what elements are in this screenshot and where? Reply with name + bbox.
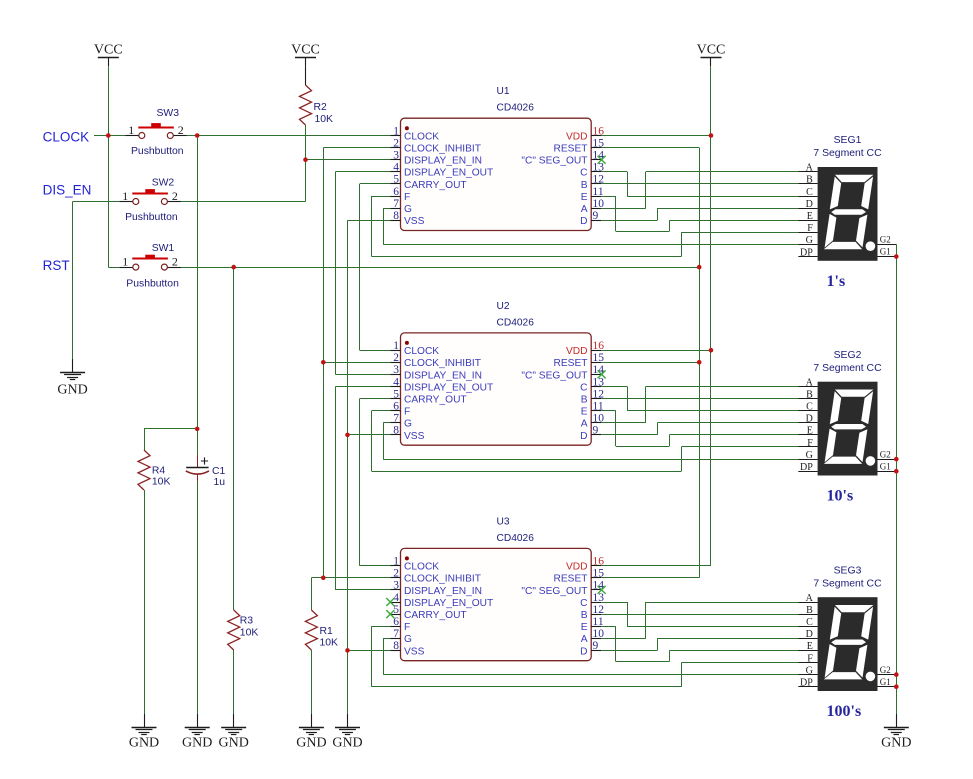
svg-text:VDD: VDD	[566, 562, 588, 573]
svg-text:G2: G2	[880, 449, 891, 459]
resistor R3	[228, 610, 240, 650]
wire U2 pin10 A	[601, 422, 646, 424]
svg-text:SEG2: SEG2	[834, 350, 862, 361]
ground GND under R3	[233, 714, 235, 727]
wire U3 pin10 A	[601, 638, 646, 640]
svg-text:1: 1	[393, 340, 399, 352]
svg-text:F: F	[807, 653, 813, 664]
wire U2 pin7 G left	[383, 422, 390, 424]
svg-text:C: C	[580, 382, 587, 393]
svg-text:11: 11	[593, 616, 604, 628]
wire F to SEG3 F	[681, 662, 798, 664]
wire C row to SEG2 C	[627, 410, 798, 412]
wire RST corner to SW1 pin1	[108, 267, 119, 269]
svg-text:F: F	[404, 622, 410, 633]
svg-text:D: D	[580, 646, 587, 657]
svg-text:RESET: RESET	[554, 574, 588, 585]
svg-text:DISPLAY_EN_IN: DISPLAY_EN_IN	[404, 370, 482, 381]
wire U1 G down	[383, 208, 385, 244]
svg-text:D: D	[806, 414, 813, 425]
wire D row to SEG3 D	[657, 638, 798, 640]
wire DIS_EN down to GND	[72, 202, 74, 360]
svg-text:B: B	[806, 175, 813, 186]
wire U3 pin12 B straight to SEG3 B	[601, 614, 798, 616]
svg-text:CD4026: CD4026	[497, 317, 535, 328]
wire G to SEG1 G	[383, 244, 798, 246]
pushbutton SW2	[119, 201, 133, 203]
wire CLOCK_INHIBIT to U2 pin2	[323, 362, 390, 364]
svg-text:VSS: VSS	[404, 646, 425, 657]
svg-text:C: C	[806, 617, 813, 628]
wire U3 F along DP row	[372, 686, 682, 688]
svg-text:10: 10	[593, 628, 605, 640]
ground GND under R4	[144, 714, 146, 727]
wire VSS to U1 pin8	[348, 220, 391, 222]
svg-text:"C" SEG_OUT: "C" SEG_OUT	[521, 586, 587, 597]
svg-text:VCC: VCC	[94, 43, 123, 58]
wire U3 pin1 stub run	[360, 565, 391, 567]
svg-text:DISPLAY_EN_OUT: DISPLAY_EN_OUT	[404, 382, 493, 393]
wire D row to SEG2 D	[657, 422, 798, 424]
wire E up	[669, 650, 671, 661]
svg-text:F: F	[807, 223, 813, 234]
svg-text:G: G	[404, 634, 412, 645]
svg-text:Pushbutton: Pushbutton	[126, 278, 179, 289]
svg-text:G: G	[806, 235, 813, 246]
svg-text:SW1: SW1	[152, 243, 175, 254]
svg-text:9: 9	[593, 640, 599, 652]
svg-text:E: E	[807, 426, 813, 437]
svg-text:12: 12	[593, 388, 605, 400]
wire R1 bottom to GND	[311, 650, 313, 714]
wire A up	[645, 387, 647, 423]
wire E row to SEG2 E	[669, 434, 798, 436]
wire E down	[615, 626, 617, 661]
junction VSS U3	[345, 648, 350, 653]
svg-text:A: A	[581, 419, 588, 430]
svg-text:C1: C1	[212, 466, 226, 477]
wire SW2 pin2 to R2 bottom	[181, 201, 306, 203]
junction SEG2 G2	[894, 457, 899, 462]
junction VDD U1	[709, 133, 714, 138]
wire CLOCK net down to C1/R4 junction	[197, 136, 199, 429]
svg-text:U1: U1	[497, 86, 510, 97]
svg-text:1: 1	[128, 123, 134, 137]
svg-text:9: 9	[593, 210, 599, 222]
svg-text:"C" SEG_OUT: "C" SEG_OUT	[521, 370, 587, 381]
wire U3 pin7 G left	[383, 638, 390, 640]
svg-text:CARRY_OUT: CARRY_OUT	[404, 610, 467, 621]
ground GND left (DIS_EN)	[72, 359, 74, 372]
svg-text:A: A	[806, 593, 814, 604]
wire U2 F down	[371, 411, 373, 472]
svg-text:G1: G1	[880, 247, 891, 257]
wire U3 F up to F row	[681, 663, 683, 687]
ground GND right under displays	[896, 714, 898, 727]
svg-text:12: 12	[593, 174, 605, 186]
svg-text:C: C	[580, 168, 587, 179]
junction R2/DISPLAY_EN_IN	[303, 157, 308, 162]
svg-text:B: B	[806, 389, 813, 400]
junction SEG2 G1	[894, 469, 899, 474]
svg-text:RST: RST	[43, 258, 70, 273]
svg-text:E: E	[807, 211, 813, 222]
no-connect X U1 pin14	[598, 156, 606, 164]
svg-text:10K: 10K	[152, 476, 171, 487]
svg-text:RESET: RESET	[554, 358, 588, 369]
wire U1 pin6 F left	[372, 196, 391, 198]
svg-text:7: 7	[393, 628, 399, 640]
wire U1 pin7 G left	[383, 208, 390, 210]
wire DIS_EN label to SW2 pin1	[73, 201, 120, 203]
svg-text:A: A	[806, 377, 814, 388]
svg-text:1: 1	[122, 255, 128, 269]
wire U3 F down	[371, 626, 373, 687]
wire D up	[657, 208, 659, 220]
wire R1 upper lead	[311, 578, 313, 610]
junction R3 top	[231, 265, 236, 270]
svg-text:D: D	[580, 431, 587, 442]
svg-text:1's: 1's	[827, 273, 846, 290]
wire E detour	[616, 446, 670, 448]
svg-text:3: 3	[393, 150, 399, 162]
wire A up	[645, 172, 647, 208]
junction RESET U2	[697, 360, 702, 365]
svg-text:DISPLAY_EN_IN: DISPLAY_EN_IN	[404, 156, 482, 167]
wire E down	[615, 411, 617, 446]
wire U2 pin11 E	[601, 410, 616, 412]
wire U1 pin12 B straight to SEG1 B	[601, 183, 798, 185]
svg-text:16: 16	[593, 340, 605, 352]
svg-text:DIS_EN: DIS_EN	[43, 182, 92, 197]
wire D row to SEG1 D	[657, 208, 798, 210]
svg-text:3: 3	[393, 580, 399, 592]
svg-text:G1: G1	[880, 461, 891, 471]
svg-text:SW3: SW3	[157, 108, 180, 119]
wire U2 pin4 stub run	[335, 386, 390, 388]
svg-text:CLOCK_INHIBIT: CLOCK_INHIBIT	[404, 358, 481, 369]
junction VDD U2	[709, 348, 714, 353]
svg-text:A: A	[581, 634, 588, 645]
junction C1 top	[195, 427, 200, 432]
svg-text:DP: DP	[800, 247, 813, 258]
svg-text:Pushbutton: Pushbutton	[125, 212, 178, 223]
wire R4 bottom to GND	[144, 490, 146, 714]
svg-text:CLOCK: CLOCK	[43, 129, 90, 144]
svg-text:F: F	[807, 438, 813, 449]
resistor R1	[305, 610, 317, 650]
bus display G1/G2 common x=896	[896, 244, 898, 714]
no-connect X U3 pin5	[386, 610, 394, 618]
svg-text:GND: GND	[332, 736, 362, 751]
svg-text:SW2: SW2	[152, 178, 175, 189]
svg-text:10: 10	[593, 198, 605, 210]
no-connect X U3 pin4	[386, 598, 394, 606]
wire U1 CARRY_OUT to U2 CLOCK	[359, 184, 361, 350]
svg-text:2: 2	[178, 123, 184, 137]
IC U3 CD4026	[401, 548, 592, 660]
svg-text:G: G	[806, 665, 813, 676]
svg-text:D: D	[580, 216, 587, 227]
wire A row to SEG3 A	[646, 602, 799, 604]
wire A row to SEG2 A	[646, 386, 799, 388]
svg-text:6: 6	[393, 401, 399, 413]
svg-text:CARRY_OUT: CARRY_OUT	[404, 180, 467, 191]
svg-text:7 Segment CC: 7 Segment CC	[813, 578, 882, 589]
svg-text:VSS: VSS	[404, 216, 425, 227]
wire U2 DISPLAY_EN_OUT to U3 DISPLAY_EN_IN	[335, 387, 337, 590]
svg-text:F: F	[404, 407, 410, 418]
wire VSS to U3 pin8	[348, 650, 391, 652]
IC U1 CD4026	[401, 118, 592, 230]
svg-text:SEG1: SEG1	[834, 135, 862, 146]
wire U1 pin11 E	[601, 196, 616, 198]
svg-text:8: 8	[393, 210, 399, 222]
svg-text:7 Segment CC: 7 Segment CC	[813, 148, 882, 159]
svg-text:7: 7	[393, 198, 399, 210]
ground GND under C1	[197, 714, 199, 727]
svg-text:VCC: VCC	[291, 43, 320, 58]
svg-text:10: 10	[593, 413, 605, 425]
svg-text:10K: 10K	[240, 628, 259, 639]
wire R3 bottom to GND	[233, 650, 235, 714]
junction CLOCK/VCC	[106, 133, 111, 138]
wire U3 pin15 RESET	[601, 577, 699, 579]
svg-text:D: D	[806, 199, 813, 210]
svg-text:4: 4	[393, 376, 399, 388]
bus VDD vertical x=711	[710, 66, 712, 566]
wire R2 junction to U1 pin3 DISPLAY_EN_IN	[306, 159, 391, 161]
svg-text:C: C	[806, 402, 813, 413]
svg-text:1: 1	[122, 189, 128, 203]
wire R4 upper lead	[144, 429, 146, 450]
svg-text:15: 15	[593, 352, 605, 364]
7-segment display SEG1	[818, 167, 878, 261]
svg-text:1: 1	[393, 556, 399, 568]
bus RESET vertical x=699	[699, 148, 701, 578]
svg-text:15: 15	[593, 137, 605, 149]
wire U2 F up to F row	[681, 447, 683, 471]
svg-text:DP: DP	[800, 462, 813, 473]
wire U1 pin5 stub run	[360, 183, 391, 185]
svg-text:G: G	[404, 204, 412, 215]
svg-text:B: B	[581, 610, 588, 621]
wire R2 lower lead	[305, 125, 307, 160]
svg-text:1u: 1u	[214, 477, 226, 488]
wire U1 pin10 A	[601, 208, 646, 210]
svg-text:U3: U3	[497, 516, 510, 527]
wire SW3 pin2 to U1 CLOCK pin1	[187, 135, 391, 137]
bus CLOCK_INHIBIT vertical x=323	[323, 148, 325, 578]
7-segment display SEG3	[818, 597, 878, 691]
svg-text:CLOCK_INHIBIT: CLOCK_INHIBIT	[404, 144, 481, 155]
svg-text:7: 7	[393, 413, 399, 425]
wire pin13 down to C row	[627, 387, 629, 411]
wire U2 pin12 B straight to SEG2 B	[601, 398, 798, 400]
svg-text:11: 11	[593, 186, 604, 198]
pushbutton SW1	[119, 267, 133, 269]
wire VCC1 down to CLOCK row	[108, 66, 110, 135]
svg-text:6: 6	[393, 186, 399, 198]
svg-text:G2: G2	[880, 235, 891, 245]
svg-text:DP: DP	[800, 678, 813, 689]
wire U2 pin1 stub run	[360, 350, 391, 352]
wire U1 pin9 D	[601, 220, 657, 222]
wire U3 pin13	[601, 602, 627, 604]
IC U2 CD4026	[401, 333, 592, 445]
svg-text:E: E	[807, 641, 813, 652]
svg-text:4: 4	[393, 592, 399, 604]
wire SW1 pin2 to RESET bus	[181, 267, 699, 269]
svg-text:CD4026: CD4026	[497, 533, 535, 544]
wire U2 pin15 RESET	[601, 362, 699, 364]
svg-text:DISPLAY_EN_OUT: DISPLAY_EN_OUT	[404, 598, 493, 609]
wire A up	[645, 602, 647, 638]
wire E detour	[616, 231, 670, 233]
wire R4 top to C1 top junction	[144, 428, 197, 430]
svg-text:B: B	[581, 395, 588, 406]
svg-text:DISPLAY_EN_OUT: DISPLAY_EN_OUT	[404, 168, 493, 179]
svg-text:5: 5	[393, 174, 399, 186]
svg-text:15: 15	[593, 568, 605, 580]
svg-text:SEG3: SEG3	[834, 565, 862, 576]
wire U2 CARRY_OUT to U3 CLOCK	[359, 399, 361, 566]
junction RST/RESET bus	[697, 265, 702, 270]
svg-text:B: B	[581, 180, 588, 191]
svg-text:CLOCK: CLOCK	[404, 131, 439, 142]
svg-text:2: 2	[393, 137, 399, 149]
wire U2 pin6 F left	[372, 410, 391, 412]
svg-text:C: C	[580, 598, 587, 609]
wire U3 pin9 D	[601, 650, 657, 652]
svg-text:E: E	[581, 192, 588, 203]
wire E up	[669, 435, 671, 446]
svg-text:2: 2	[393, 352, 399, 364]
wire G to SEG2 G	[383, 459, 798, 461]
wire F to SEG1 F	[681, 232, 798, 234]
wire C row to SEG1 C	[627, 196, 798, 198]
wire U2 pin13	[601, 386, 627, 388]
svg-text:CLOCK: CLOCK	[404, 562, 439, 573]
wire G to SEG3 G	[383, 674, 798, 676]
svg-text:"C" SEG_OUT: "C" SEG_OUT	[521, 156, 587, 167]
wire CLOCK_INHIBIT to U1 pin2	[323, 147, 390, 149]
svg-text:RESET: RESET	[554, 144, 588, 155]
junction CLOCK_INHIBIT U3/R1	[321, 576, 326, 581]
pushbutton SW3	[125, 135, 139, 137]
svg-text:2: 2	[393, 568, 399, 580]
wire U2 pin16 VDD	[601, 350, 711, 352]
wire U3 pin16 VDD	[601, 565, 711, 567]
svg-text:10K: 10K	[315, 114, 334, 125]
svg-text:100's: 100's	[827, 703, 862, 720]
svg-text:16: 16	[593, 125, 605, 137]
wire E down	[615, 196, 617, 231]
wire U3 G down	[383, 638, 385, 674]
svg-text:GND: GND	[296, 736, 326, 751]
wire R2 bottom vertical	[305, 160, 307, 202]
svg-text:G1: G1	[880, 677, 891, 687]
wire VCC2 to R2 top	[305, 66, 307, 85]
svg-text:VDD: VDD	[566, 346, 588, 357]
wire CLOCK label to SW3 pin1	[94, 135, 125, 137]
svg-text:4: 4	[393, 162, 399, 174]
wire U1 pin15 RESET	[601, 147, 699, 149]
wire U1 pin13	[601, 171, 627, 173]
ground GND under R1	[311, 714, 313, 727]
junction VSS U2	[345, 433, 350, 438]
wire U1 F down	[371, 196, 373, 257]
svg-text:VSS: VSS	[404, 431, 425, 442]
wire U3 pin3 stub run	[335, 589, 390, 591]
svg-text:VCC: VCC	[697, 43, 726, 58]
svg-text:CLOCK_INHIBIT: CLOCK_INHIBIT	[404, 574, 481, 585]
wire E up	[669, 220, 671, 231]
wire F to SEG2 F	[681, 446, 798, 448]
wire U2 pin9 D	[601, 434, 657, 436]
wire U1 DISPLAY_EN_OUT to U2 DISPLAY_EN_IN	[335, 172, 337, 375]
svg-text:7 Segment CC: 7 Segment CC	[813, 363, 882, 374]
svg-text:CARRY_OUT: CARRY_OUT	[404, 395, 467, 406]
svg-text:B: B	[806, 605, 813, 616]
wire RST row down to R3	[233, 267, 235, 610]
wire U1 F up to F row	[681, 232, 683, 256]
svg-text:E: E	[581, 622, 588, 633]
wire E detour	[616, 661, 670, 663]
svg-text:GND: GND	[219, 736, 249, 751]
wire U2 pin5 stub run	[360, 398, 391, 400]
svg-text:R1: R1	[320, 626, 334, 637]
svg-text:D: D	[806, 629, 813, 640]
svg-text:U2: U2	[497, 301, 510, 312]
svg-text:GND: GND	[182, 736, 212, 751]
wire D up	[657, 423, 659, 435]
wire U1 pin4 stub run	[335, 171, 390, 173]
svg-text:VDD: VDD	[566, 131, 588, 142]
wire R1 top to CLOCK_INHIBIT bus	[311, 577, 323, 579]
ground GND under VSS bus	[347, 714, 349, 727]
wire E row to SEG1 E	[669, 220, 798, 222]
wire VSS to U2 pin8	[348, 434, 391, 436]
capacitor C1	[197, 429, 199, 455]
junction SEG3 G1	[894, 684, 899, 689]
svg-text:11: 11	[593, 401, 604, 413]
wire U3 pin11 E	[601, 626, 616, 628]
no-connect X U2 pin14	[598, 370, 606, 378]
svg-text:12: 12	[593, 604, 605, 616]
resistor R4	[138, 450, 150, 490]
bus VSS vertical x=347	[347, 220, 349, 714]
svg-text:10K: 10K	[320, 638, 339, 649]
wire pin13 down to C row	[627, 172, 629, 196]
svg-text:GND: GND	[57, 383, 87, 398]
svg-text:C: C	[806, 187, 813, 198]
svg-text:CD4026: CD4026	[497, 103, 535, 114]
svg-text:DISPLAY_EN_IN: DISPLAY_EN_IN	[404, 586, 482, 597]
svg-text:CLOCK: CLOCK	[404, 346, 439, 357]
svg-text:R3: R3	[240, 616, 254, 627]
svg-text:GND: GND	[129, 736, 159, 751]
wire VCC vertical down to RST row	[108, 136, 110, 268]
svg-text:R4: R4	[152, 466, 166, 477]
junction SW3 pin2	[195, 133, 200, 138]
junction CLOCK_INHIBIT U2	[321, 360, 326, 365]
wire A row to SEG1 A	[646, 171, 799, 173]
wire CLOCK_INHIBIT to U3 pin2	[323, 577, 390, 579]
svg-text:2: 2	[172, 255, 178, 269]
resistor R2	[300, 85, 312, 125]
wire U2 pin3 stub run	[335, 374, 390, 376]
